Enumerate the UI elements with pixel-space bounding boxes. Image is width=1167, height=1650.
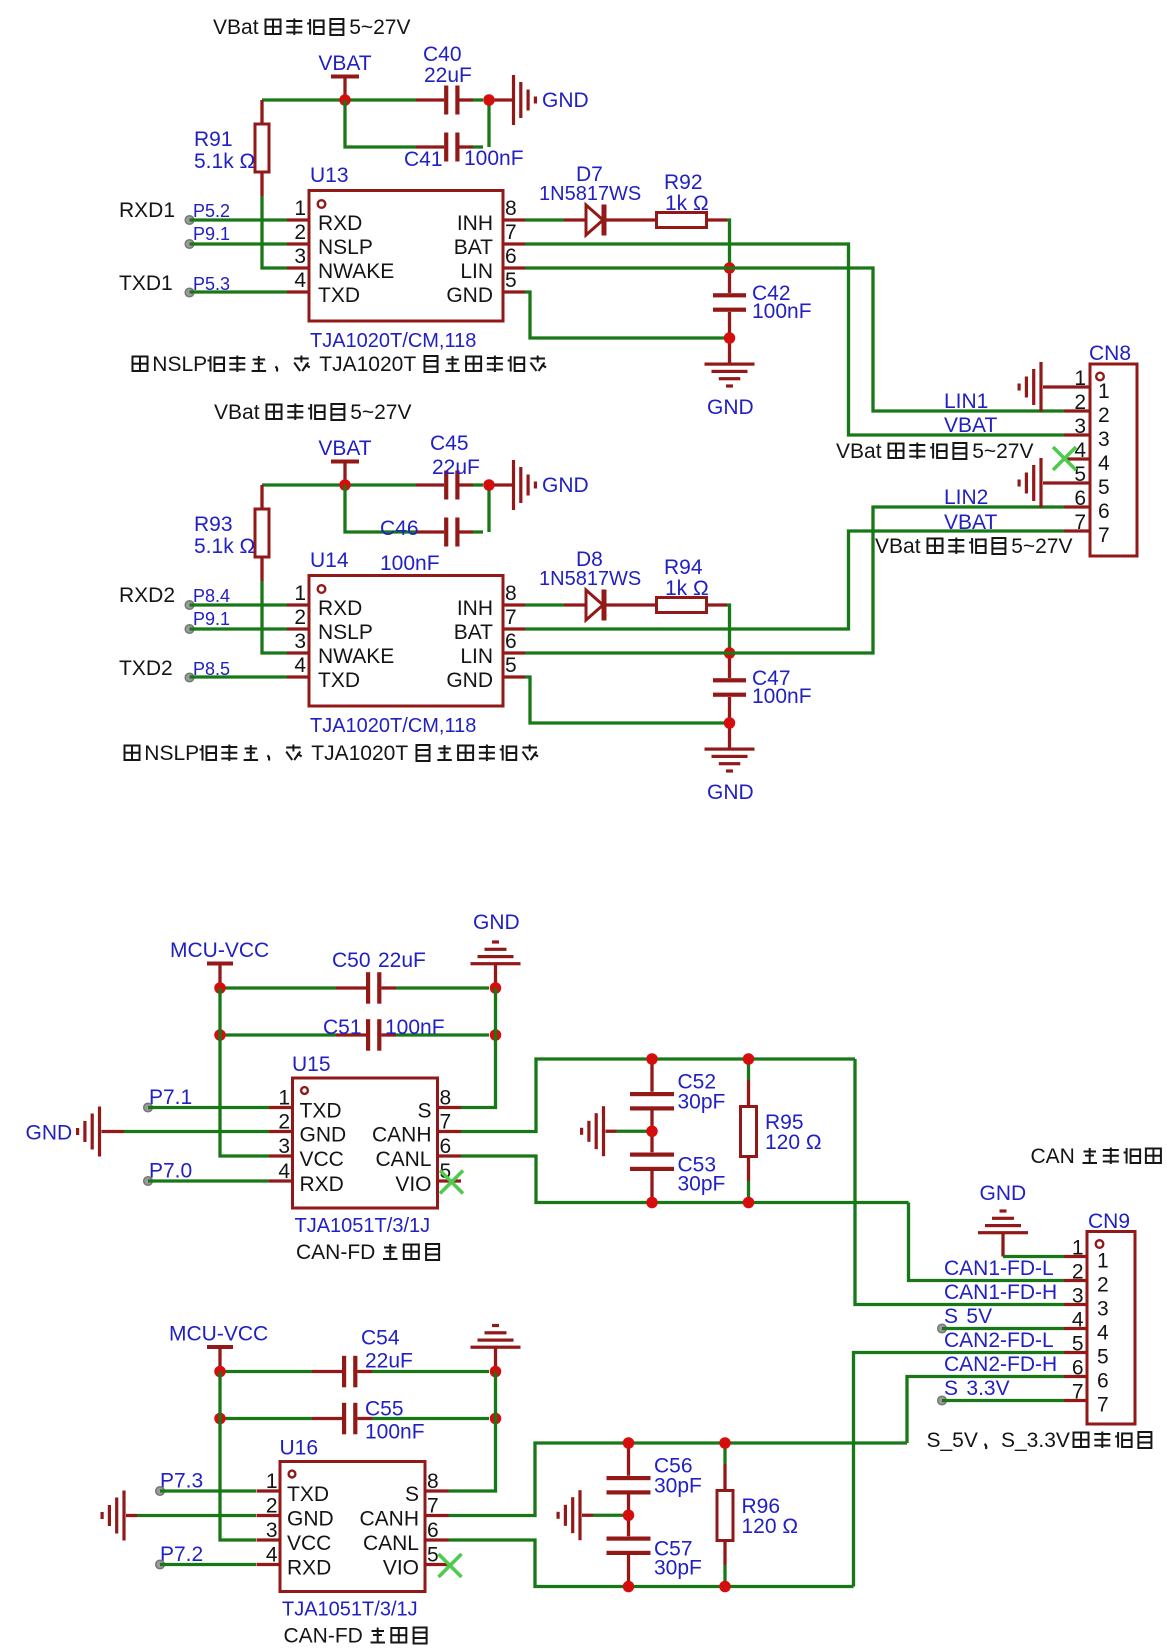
svg-text:NSLP: NSLP	[144, 742, 199, 765]
junction VBAT rail	[339, 94, 351, 106]
svg-text:1: 1	[1097, 1250, 1109, 1273]
svg-text:7: 7	[505, 606, 517, 629]
capacitor C45 22uF	[416, 432, 483, 500]
net label P8.5 (TXD input)	[119, 657, 287, 682]
wire BAT to CN8 VBAT (lower)	[525, 531, 1064, 629]
svg-text:2: 2	[1098, 404, 1110, 427]
svg-text:TJA1051T/3/1J: TJA1051T/3/1J	[295, 1215, 431, 1237]
svg-text:TJA1051T/3/1J: TJA1051T/3/1J	[282, 1599, 418, 1621]
svg-text:3: 3	[1098, 428, 1110, 451]
net label S_5V	[938, 1305, 1064, 1333]
svg-text:5~27V: 5~27V	[350, 401, 411, 424]
svg-text:6: 6	[427, 1519, 439, 1542]
svg-text:8: 8	[440, 1087, 452, 1110]
svg-text:1k Ω: 1k Ω	[665, 192, 709, 215]
wire CANL to termination	[461, 1156, 909, 1203]
net label LIN1	[944, 390, 988, 413]
svg-text:NSLP: NSLP	[152, 353, 207, 376]
svg-text:VBAT: VBAT	[318, 52, 371, 75]
svg-text:5: 5	[505, 654, 517, 677]
svg-text:4: 4	[294, 269, 306, 292]
net label LIN2	[944, 486, 988, 509]
ground at CN8 pin1	[1018, 362, 1065, 412]
svg-text:7: 7	[427, 1495, 439, 1518]
svg-text:NWAKE: NWAKE	[318, 645, 394, 668]
svg-text:22uF: 22uF	[378, 949, 426, 972]
svg-text:S 5V: S 5V	[944, 1305, 992, 1328]
junction CANH rail at resistor	[743, 1053, 755, 1065]
svg-text:1: 1	[294, 197, 306, 220]
svg-text:TJA1020T/CM,118: TJA1020T/CM,118	[310, 715, 476, 737]
svg-text:BAT: BAT	[454, 621, 493, 644]
net label CAN1-FD-L	[944, 1257, 1054, 1280]
svg-text:VBAT: VBAT	[944, 414, 997, 437]
svg-text:4: 4	[294, 654, 306, 677]
capacitor C41 100nF	[404, 133, 524, 172]
svg-text:CN9: CN9	[1088, 1210, 1130, 1233]
svg-text:TJA1020T: TJA1020T	[319, 353, 416, 376]
no-connect X at CN8 pin4	[1053, 447, 1076, 470]
svg-text:R92: R92	[664, 171, 703, 194]
svg-text:3: 3	[1097, 1298, 1109, 1321]
net label P7.3 (TXD)	[156, 1470, 256, 1496]
svg-text:GND: GND	[980, 1182, 1027, 1205]
svg-text:CAN: CAN	[1031, 1145, 1075, 1168]
svg-text:LIN: LIN	[460, 645, 493, 668]
wire chip GND to cap bottom	[525, 677, 726, 723]
junction CANL rail at cap	[623, 1581, 635, 1593]
svg-text:VBat: VBat	[836, 440, 882, 463]
junction caps right	[483, 94, 495, 106]
connector CN9	[1064, 1210, 1135, 1424]
svg-text:30pF: 30pF	[678, 1172, 726, 1195]
junction CANL rail at resistor	[719, 1581, 731, 1593]
net label CAN2-FD-H	[944, 1353, 1057, 1376]
svg-text:C51: C51	[323, 1016, 362, 1039]
svg-text:CANH: CANH	[359, 1508, 419, 1531]
junction termination midpoint	[623, 1510, 635, 1522]
svg-text:22uF: 22uF	[432, 456, 480, 479]
wire VBAT junction down-left loop	[345, 485, 416, 532]
svg-text:100nF: 100nF	[464, 147, 524, 170]
svg-text:6: 6	[1098, 500, 1110, 523]
IC U14 TJA1020T LIN transceiver	[287, 549, 525, 737]
net label P9.1 (NSLP)	[185, 224, 287, 248]
resistor R96 120	[717, 1443, 798, 1587]
junction VCC rail left	[214, 982, 226, 994]
svg-text:GND: GND	[707, 396, 754, 419]
svg-text:4: 4	[1072, 1309, 1084, 1332]
svg-text:P7.2: P7.2	[160, 1543, 203, 1566]
junction cap rail right lower	[490, 1413, 502, 1425]
power flag MCU-VCC (U16)	[169, 1323, 268, 1372]
svg-text:GND: GND	[542, 89, 589, 112]
ground above U15 (S pin rail)	[471, 911, 521, 988]
svg-text:CAN1-FD-L: CAN1-FD-L	[944, 1257, 1054, 1280]
svg-text:3: 3	[1072, 1285, 1084, 1308]
svg-text:2: 2	[294, 606, 306, 629]
svg-text:22uF: 22uF	[424, 64, 472, 87]
wire VCC rail verticals left	[220, 988, 269, 1156]
svg-text:VCC: VCC	[287, 1532, 331, 1555]
svg-text:2: 2	[1097, 1274, 1109, 1297]
svg-text:120 Ω: 120 Ω	[742, 1515, 799, 1538]
capacitor C53 30pF	[630, 1131, 725, 1202]
ground at CN9 pin1	[978, 1182, 1064, 1257]
svg-text:3: 3	[294, 245, 306, 268]
svg-text:7: 7	[1098, 524, 1110, 547]
svg-text:6: 6	[440, 1135, 452, 1158]
junction CANH rail at resistor	[719, 1437, 731, 1449]
svg-text:P9.1: P9.1	[193, 609, 230, 629]
svg-text:VBat: VBat	[213, 16, 259, 39]
svg-text:3: 3	[266, 1519, 278, 1542]
svg-text:8: 8	[505, 197, 517, 220]
note S_5V / S_3.3V power annotation	[927, 1429, 1152, 1452]
net label P7.2 (RXD)	[156, 1543, 256, 1569]
net label P5.3 (TXD input)	[119, 272, 287, 297]
net label P9.1 (NSLP)	[185, 609, 287, 633]
svg-text:1: 1	[1074, 367, 1086, 390]
svg-text:CAN-FD: CAN-FD	[284, 1625, 363, 1648]
svg-text:GND: GND	[446, 284, 493, 307]
svg-text:LIN1: LIN1	[944, 390, 988, 413]
svg-text:VBat: VBat	[875, 535, 921, 558]
wire S-pin rail verticals right	[449, 1372, 496, 1492]
svg-text:C46: C46	[380, 517, 419, 540]
svg-text:GND: GND	[707, 781, 754, 804]
junction VCC rail right	[490, 1366, 502, 1378]
junction termination midpoint	[646, 1126, 658, 1138]
svg-text:CAN1-FD-H: CAN1-FD-H	[944, 1281, 1057, 1304]
ground at termination midpoint	[580, 1106, 652, 1156]
svg-text:2: 2	[278, 1111, 290, 1134]
svg-text:6: 6	[1072, 1357, 1084, 1380]
svg-text:S_5V: S_5V	[927, 1429, 978, 1452]
svg-text:S: S	[405, 1483, 419, 1506]
svg-text:U13: U13	[310, 164, 349, 187]
wire BAT to CN8 VBAT	[525, 244, 1064, 435]
wire CAN2-FD-H to CN9	[907, 1377, 1064, 1444]
note CAN bus interface annotation	[1031, 1145, 1161, 1168]
ground at U16 pin2	[101, 1491, 257, 1541]
net label P7.1 (TXD)	[144, 1086, 269, 1112]
svg-text:7: 7	[1074, 511, 1086, 534]
svg-text:VCC: VCC	[300, 1148, 344, 1171]
note VBat power annotation (U13 section)	[213, 16, 411, 39]
svg-text:1: 1	[294, 582, 306, 605]
svg-text:C45: C45	[430, 432, 469, 455]
svg-text:R93: R93	[194, 513, 233, 536]
svg-text:6: 6	[505, 245, 517, 268]
svg-text:8: 8	[427, 1470, 439, 1493]
ground GND below C42	[705, 338, 755, 419]
wire CANH to termination	[461, 1059, 855, 1132]
capacitor C42 100nF	[713, 268, 812, 338]
svg-text:MCU-VCC: MCU-VCC	[169, 1323, 268, 1346]
resistor R92 1k	[657, 171, 728, 228]
resistor R95 120	[741, 1059, 822, 1203]
ground GND right of C40	[489, 75, 589, 125]
svg-text:S_3.3V: S_3.3V	[1001, 1429, 1070, 1452]
svg-text:R91: R91	[194, 128, 233, 151]
svg-text:1: 1	[1072, 1237, 1084, 1260]
wire LIN to CN8 LIN2	[525, 507, 1064, 653]
wire VCC rail verticals left	[220, 1372, 256, 1541]
svg-text:P7.3: P7.3	[160, 1470, 203, 1493]
svg-text:CAN2-FD-H: CAN2-FD-H	[944, 1353, 1057, 1376]
wire CAN1-FD-H to CN9	[855, 1059, 1064, 1305]
svg-text:3: 3	[294, 630, 306, 653]
capacitor C52 30pF	[630, 1059, 725, 1131]
svg-text:2: 2	[1072, 1261, 1084, 1284]
no-connect X at VIO	[440, 1171, 463, 1194]
svg-text:1N5817WS: 1N5817WS	[539, 568, 641, 590]
wire CANH to termination	[449, 1443, 908, 1516]
svg-text:VBAT: VBAT	[944, 511, 997, 534]
wire CANL to termination	[449, 1540, 854, 1587]
svg-text:GND: GND	[287, 1508, 334, 1531]
ground at CN8 pin5	[1018, 458, 1065, 508]
svg-text:CAN-FD: CAN-FD	[296, 1241, 375, 1264]
svg-text:TXD: TXD	[300, 1100, 342, 1123]
svg-text:VIO: VIO	[395, 1173, 431, 1196]
svg-text:P7.1: P7.1	[149, 1086, 192, 1109]
IC U16 TJA1051 CAN-FD transceiver	[257, 1437, 449, 1621]
net label S_3.3V	[938, 1377, 1064, 1405]
svg-text:6: 6	[1074, 487, 1086, 510]
net label VBAT (CN8 pin7)	[944, 511, 997, 534]
svg-text:5~27V: 5~27V	[972, 440, 1033, 463]
svg-text:GND: GND	[26, 1122, 73, 1145]
junction CANH rail at cap	[646, 1053, 658, 1065]
svg-text:GND: GND	[473, 911, 520, 934]
connector CN8	[1064, 342, 1137, 556]
svg-text:7: 7	[440, 1111, 452, 1134]
svg-text:RXD2: RXD2	[119, 584, 175, 607]
svg-text:U16: U16	[280, 1437, 319, 1460]
svg-text:120 Ω: 120 Ω	[765, 1131, 822, 1154]
svg-text:3: 3	[278, 1135, 290, 1158]
svg-text:CANL: CANL	[375, 1148, 431, 1171]
svg-text:U15: U15	[292, 1053, 331, 1076]
svg-text:3: 3	[1074, 415, 1086, 438]
svg-text:BAT: BAT	[454, 236, 493, 259]
wire cap output joins	[487, 100, 490, 147]
svg-text:4: 4	[1097, 1322, 1109, 1345]
svg-text:VIO: VIO	[383, 1557, 419, 1580]
junction GND node	[724, 717, 736, 729]
svg-text:NSLP: NSLP	[318, 621, 373, 644]
svg-text:P5.2: P5.2	[193, 201, 230, 221]
note CAN-FD transceiver annotation	[296, 1241, 439, 1264]
wire VBAT junction down-left loop	[345, 100, 416, 147]
wire chip GND to cap bottom	[525, 292, 726, 338]
svg-text:GND: GND	[446, 669, 493, 692]
svg-text:TJA1020T/CM,118: TJA1020T/CM,118	[310, 330, 476, 352]
svg-text:NWAKE: NWAKE	[318, 260, 394, 283]
svg-text:TXD1: TXD1	[119, 272, 173, 295]
ground above U16 (S pin rail)	[471, 1324, 521, 1372]
svg-text:C50: C50	[332, 949, 371, 972]
junction cap rail right lower	[490, 1029, 502, 1041]
power flag VBAT (U13)	[318, 52, 371, 100]
svg-text:1N5817WS: 1N5817WS	[539, 183, 641, 205]
capacitor C40 22uF	[416, 43, 483, 115]
svg-text:VBAT: VBAT	[318, 437, 371, 460]
net label P7.0 (RXD)	[144, 1160, 269, 1186]
capacitor C46 100nF	[380, 517, 483, 575]
wire cap output joins	[487, 485, 490, 532]
svg-text:GND: GND	[300, 1124, 347, 1147]
net label P5.2 (RXD input)	[119, 199, 287, 224]
net label VBAT (CN8 pin3)	[944, 414, 997, 437]
IC U15 TJA1051 CAN-FD transceiver	[269, 1053, 461, 1237]
svg-text:P8.4: P8.4	[193, 586, 230, 606]
svg-text:RXD1: RXD1	[119, 199, 175, 222]
svg-text:5: 5	[427, 1544, 439, 1567]
junction CANL rail at cap	[646, 1197, 658, 1209]
svg-text:RXD: RXD	[300, 1173, 344, 1196]
svg-text:C54: C54	[361, 1327, 400, 1350]
svg-text:5: 5	[1072, 1333, 1084, 1356]
svg-text:4: 4	[266, 1544, 278, 1567]
svg-text:NSLP: NSLP	[318, 236, 373, 259]
capacitor C47 100nF	[713, 653, 812, 723]
ground at termination midpoint	[557, 1490, 629, 1540]
svg-text:1: 1	[278, 1087, 290, 1110]
svg-text:30pF: 30pF	[654, 1474, 702, 1497]
svg-text:U14: U14	[310, 549, 349, 572]
svg-text:100nF: 100nF	[752, 300, 812, 323]
svg-text:TJA1020T: TJA1020T	[311, 742, 408, 765]
capacitor C54 22uF	[220, 1327, 489, 1388]
wire VBAT rail	[262, 483, 416, 486]
capacitor C57 30pF	[607, 1515, 702, 1586]
wire VBAT rail	[262, 98, 416, 101]
wire R pullup to NWAKE	[262, 196, 287, 268]
junction VBAT rail	[339, 479, 351, 491]
no-connect X at VIO	[439, 1554, 462, 1577]
note VBat annotation at CN8 lower	[875, 535, 1073, 558]
svg-text:C40: C40	[423, 43, 462, 66]
svg-text:5.1k Ω: 5.1k Ω	[194, 150, 255, 173]
svg-text:5: 5	[1097, 1346, 1109, 1369]
svg-text:2: 2	[266, 1495, 278, 1518]
junction CANL rail at resistor	[743, 1197, 755, 1209]
svg-text:1: 1	[266, 1470, 278, 1493]
svg-text:7: 7	[1097, 1394, 1109, 1417]
svg-text:LIN2: LIN2	[944, 486, 988, 509]
net label CAN2-FD-L	[944, 1329, 1054, 1352]
svg-text:4: 4	[278, 1160, 290, 1183]
svg-text:CN8: CN8	[1089, 342, 1131, 365]
wire S-pin rail verticals right	[461, 988, 496, 1108]
wire CAN1-FD-L to CN9	[909, 1203, 1065, 1281]
note CAN-FD transceiver annotation	[284, 1625, 427, 1648]
junction LIN node	[724, 647, 736, 659]
svg-text:TXD: TXD	[318, 669, 360, 692]
svg-text:RXD: RXD	[318, 597, 362, 620]
svg-text:CANH: CANH	[372, 1124, 432, 1147]
svg-text:30pF: 30pF	[654, 1556, 702, 1579]
svg-text:5: 5	[1074, 463, 1086, 486]
resistor R93 5.1k	[194, 485, 269, 581]
power flag VBAT (U14)	[318, 437, 371, 485]
svg-text:TXD: TXD	[318, 284, 360, 307]
svg-text:100nF: 100nF	[380, 552, 440, 575]
svg-text:GND: GND	[542, 474, 589, 497]
svg-text:INH: INH	[457, 212, 493, 235]
svg-text:INH: INH	[457, 597, 493, 620]
svg-text:5: 5	[505, 269, 517, 292]
svg-text:1: 1	[1098, 380, 1110, 403]
svg-text:TXD2: TXD2	[119, 657, 173, 680]
diode D7 1N5817WS	[525, 163, 657, 236]
svg-text:6: 6	[1097, 1370, 1109, 1393]
svg-text:C41: C41	[404, 148, 443, 171]
svg-text:CAN2-FD-L: CAN2-FD-L	[944, 1329, 1054, 1352]
svg-text:6: 6	[505, 630, 517, 653]
svg-text:S 3.3V: S 3.3V	[944, 1377, 1010, 1400]
svg-text:RXD: RXD	[318, 212, 362, 235]
ground GND at TJA1051 pin2	[26, 1107, 270, 1157]
svg-text:RXD: RXD	[287, 1557, 331, 1580]
note VBat power annotation (U14 section)	[214, 401, 412, 424]
svg-text:5~27V: 5~27V	[1011, 535, 1072, 558]
junction VCC rail left	[214, 1366, 226, 1378]
diode D8 1N5817WS	[525, 548, 657, 621]
svg-text:7: 7	[505, 221, 517, 244]
svg-text:P9.1: P9.1	[193, 224, 230, 244]
svg-text:7: 7	[1072, 1381, 1084, 1404]
junction LIN node	[724, 262, 736, 274]
svg-text:100nF: 100nF	[385, 1016, 445, 1039]
junction cap rail left lower	[214, 1029, 226, 1041]
svg-text:100nF: 100nF	[752, 685, 812, 708]
svg-text:4: 4	[1074, 439, 1086, 462]
junction caps right	[483, 479, 495, 491]
net label CAN1-FD-H	[944, 1281, 1057, 1304]
svg-text:LIN: LIN	[460, 260, 493, 283]
svg-text:8: 8	[505, 582, 517, 605]
svg-text:MCU-VCC: MCU-VCC	[170, 939, 269, 962]
ground GND below C47	[705, 723, 755, 804]
net label P8.4 (RXD input)	[119, 584, 287, 609]
wire R pullup to NWAKE	[262, 581, 287, 653]
junction VCC rail right	[490, 982, 502, 994]
resistor R94 1k	[657, 556, 728, 613]
svg-text:100nF: 100nF	[365, 1421, 425, 1444]
svg-text:C55: C55	[365, 1398, 404, 1421]
capacitor C56 30pF	[607, 1443, 702, 1515]
capacitor C55 100nF	[220, 1398, 489, 1444]
IC U13 TJA1020T LIN transceiver	[287, 164, 525, 352]
wire INH network to LIN	[727, 220, 730, 268]
svg-text:R94: R94	[664, 556, 703, 579]
resistor R91 5.1k	[194, 100, 269, 196]
junction GND node	[724, 332, 736, 344]
svg-text:TXD: TXD	[287, 1483, 329, 1506]
note NSLP sleep-mode annotation	[133, 353, 547, 376]
svg-text:P7.0: P7.0	[149, 1160, 192, 1183]
svg-text:CANL: CANL	[363, 1532, 419, 1555]
note VBat annotation at CN8 upper	[836, 440, 1034, 463]
svg-text:VBat: VBat	[214, 401, 260, 424]
svg-text:22uF: 22uF	[365, 1350, 413, 1373]
junction CANH rail at cap	[623, 1437, 635, 1449]
svg-text:30pF: 30pF	[678, 1090, 726, 1113]
